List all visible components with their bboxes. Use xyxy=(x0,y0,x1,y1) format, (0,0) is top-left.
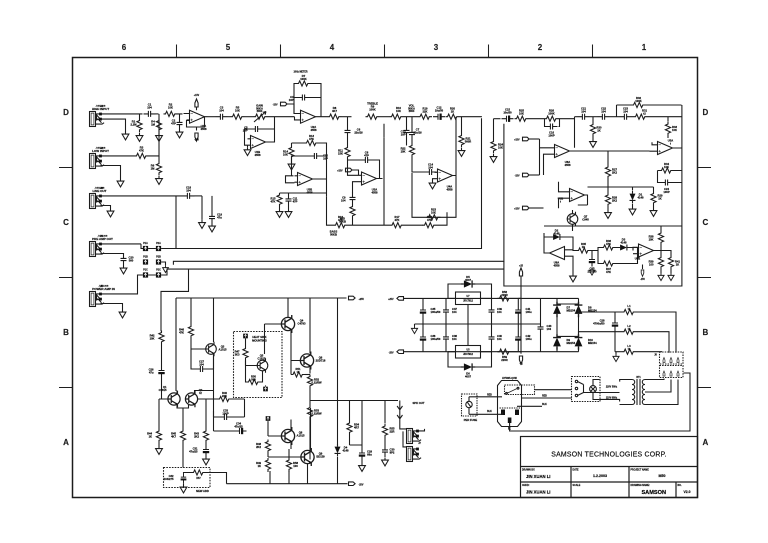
svg-text:SPK OUT: SPK OUT xyxy=(413,401,425,405)
ground jack1 xyxy=(122,132,129,140)
svg-text:0.22/5W: 0.22/5W xyxy=(311,380,321,384)
svg-text:t: t xyxy=(560,199,561,203)
svg-text:-25V: -25V xyxy=(359,485,364,487)
resistor R2 xyxy=(164,111,178,116)
resistor R8 xyxy=(328,114,342,119)
svg-text:1: 1 xyxy=(642,43,647,52)
svg-text:DRAWING NAME:: DRAWING NAME: xyxy=(631,484,651,487)
svg-text:10K: 10K xyxy=(664,165,669,169)
R14 vert gnd xyxy=(289,146,294,160)
svg-text:10K: 10K xyxy=(498,145,503,149)
cap C38 xyxy=(443,332,449,344)
fuse F1 xyxy=(466,401,472,407)
svg-text:4K7: 4K7 xyxy=(332,109,337,113)
diode D1 down xyxy=(630,191,636,203)
resistor R3 xyxy=(135,153,149,158)
svg-text:100P: 100P xyxy=(548,133,554,137)
PSU bottom rail xyxy=(404,351,522,353)
svg-text:104: 104 xyxy=(601,109,606,113)
svg-text:50KA: 50KA xyxy=(408,106,415,110)
svg-text:JRC7912: JRC7912 xyxy=(463,354,473,356)
svg-text:-15V: -15V xyxy=(194,140,199,142)
svg-text:10u/50: 10u/50 xyxy=(503,110,512,114)
U6B input wires xyxy=(544,182,567,208)
servo op-amp U1B xyxy=(248,136,269,149)
cap C27 xyxy=(196,366,208,372)
svg-text:10K: 10K xyxy=(168,105,173,109)
transformer secondary wires xyxy=(645,379,678,405)
svg-text:22R: 22R xyxy=(390,429,395,433)
svg-text:PRE AMP OUT: PRE AMP OUT xyxy=(92,237,113,241)
svg-text:J-6513-648: J-6513-648 xyxy=(95,186,105,189)
C10 feedback cap xyxy=(310,153,322,159)
capacitor C22 xyxy=(598,114,610,120)
U3B feedback wires xyxy=(286,143,327,183)
R57 in box xyxy=(192,470,206,475)
+15V flag U1A xyxy=(195,99,198,107)
fuse wires xyxy=(469,397,503,415)
svg-text:50KB: 50KB xyxy=(330,232,337,236)
-25V pennant PSU xyxy=(397,350,404,354)
zobel C30 xyxy=(382,445,388,457)
resistor R51 xyxy=(291,372,305,377)
svg-text:J-6513-648: J-6513-648 xyxy=(96,146,106,149)
regulator U7 xyxy=(456,292,481,305)
resistor R46 vert xyxy=(188,325,193,339)
svg-text:4558: 4558 xyxy=(307,190,313,194)
U5A wires xyxy=(650,105,682,151)
svg-text:100u: 100u xyxy=(526,310,532,314)
resistor R21 vert xyxy=(459,134,464,148)
transistor Q4 xyxy=(281,315,294,333)
cap C25 elec xyxy=(589,255,595,267)
capacitor C1 xyxy=(144,111,156,117)
svg-text:t: t xyxy=(637,259,638,263)
rail drops xyxy=(176,298,338,391)
ground R28 xyxy=(605,210,612,218)
svg-text:P1A: P1A xyxy=(143,242,148,245)
ground R44 xyxy=(156,446,163,454)
ground R24 xyxy=(490,154,497,162)
svg-text:5: 5 xyxy=(226,43,231,52)
wire J5 tip to pin row3 xyxy=(102,275,156,294)
svg-text:1K: 1K xyxy=(149,434,152,438)
svg-text:100: 100 xyxy=(293,464,298,468)
wire low band xyxy=(280,179,327,196)
ground R29 xyxy=(650,208,657,216)
selector contacts xyxy=(575,380,577,382)
svg-text:47K: 47K xyxy=(309,137,314,141)
resistor R49 vert xyxy=(265,458,270,472)
capacitor C7 xyxy=(404,126,410,138)
capacitor C6 xyxy=(345,126,351,138)
ground C20 xyxy=(120,266,127,274)
socket pins xyxy=(501,410,505,416)
svg-text:HY5605-QCW: HY5605-QCW xyxy=(502,378,518,380)
resistor R20 xyxy=(446,114,460,119)
svg-text:D: D xyxy=(63,108,69,117)
R15 vert xyxy=(277,193,282,207)
side section ticks xyxy=(59,168,711,388)
svg-text:4558: 4558 xyxy=(311,128,317,132)
svg-text:C1815: C1815 xyxy=(159,388,167,392)
svg-text:RED: RED xyxy=(542,395,547,397)
Q6 wires xyxy=(291,361,310,374)
svg-text:10P: 10P xyxy=(289,98,294,102)
wire U1A out xyxy=(208,116,216,118)
resistor R10 xyxy=(390,114,404,119)
resistor R4 xyxy=(156,119,161,133)
svg-text:8P2: 8P2 xyxy=(390,450,395,454)
op-amp U3B second xyxy=(295,173,316,186)
bus wire net2 xyxy=(161,124,504,266)
resistor R23 bottom xyxy=(427,215,441,220)
transistor Q7 xyxy=(567,212,578,226)
op-amp U4A xyxy=(435,169,456,182)
resistor R9 xyxy=(366,114,380,119)
wire J4 tip to pins xyxy=(102,243,142,245)
svg-text:MB154: MB154 xyxy=(588,341,597,345)
svg-text:1K: 1K xyxy=(597,128,600,132)
op-amp U5A xyxy=(655,142,676,155)
zobel C29 elec xyxy=(359,448,365,460)
jack J5 POWER AMP IN xyxy=(90,292,105,307)
capacitor C3 xyxy=(216,114,228,120)
svg-text:4148: 4148 xyxy=(554,231,560,235)
diode D5 bypass xyxy=(461,280,475,287)
svg-text:4558: 4558 xyxy=(565,163,571,167)
wire C18 to C19 xyxy=(195,195,203,197)
svg-text:-15V: -15V xyxy=(273,105,278,107)
fuse F1 dashed box xyxy=(462,394,478,416)
cap C42 elec xyxy=(515,332,521,344)
rail mid xyxy=(348,224,391,226)
resistor R22 vert xyxy=(409,144,414,158)
svg-text:JIN XUAN LI: JIN XUAN LI xyxy=(526,474,550,479)
resistor R12 vert xyxy=(350,205,355,219)
regulator U5 xyxy=(456,346,481,359)
svg-text:A1015: A1015 xyxy=(297,433,305,437)
svg-text:4148: 4148 xyxy=(638,195,644,199)
wire to opamp U4A xyxy=(412,158,425,173)
svg-text:10K: 10K xyxy=(431,210,436,214)
ground C31 xyxy=(203,457,210,465)
node D1 xyxy=(405,117,419,128)
capacitor C9 vert xyxy=(350,193,356,205)
feedback capacitor C4 xyxy=(298,95,310,101)
ground R6 xyxy=(156,176,163,184)
svg-text:J-6513-648: J-6513-648 xyxy=(99,284,109,287)
zobel R54 xyxy=(347,421,352,435)
node A1 xyxy=(156,113,159,115)
output node wire xyxy=(310,401,398,460)
op-amp U2A xyxy=(268,116,295,118)
feedback loop wires U2 xyxy=(294,84,321,120)
ground R4 xyxy=(156,133,163,141)
svg-text:10u/50: 10u/50 xyxy=(435,108,444,112)
svg-text:4R7: 4R7 xyxy=(354,425,359,429)
svg-text:47K: 47K xyxy=(139,148,144,152)
svg-text:C4793: C4793 xyxy=(298,321,306,325)
wire J3 sleeve gnd xyxy=(101,206,111,209)
wire switch low to transformer xyxy=(600,399,620,401)
svg-text:560: 560 xyxy=(129,258,134,262)
wire socket to switch xyxy=(522,390,620,398)
svg-text:104: 104 xyxy=(147,105,152,109)
svg-text:10K: 10K xyxy=(283,152,288,156)
svg-text:BT1: BT1 xyxy=(636,377,641,379)
wire J3 tip xyxy=(102,195,177,197)
ground U8A xyxy=(570,274,577,282)
svg-text:100u: 100u xyxy=(526,337,532,341)
svg-text:D: D xyxy=(703,108,709,117)
svg-text:4K7: 4K7 xyxy=(171,434,176,438)
svg-text:4148: 4148 xyxy=(621,240,627,244)
svg-text:SAMSON TECHNOLOGIES CORP.: SAMSON TECHNOLOGIES CORP. xyxy=(551,452,667,459)
svg-text:1K: 1K xyxy=(676,262,679,266)
+12V rail out xyxy=(520,298,522,351)
capacitor C21 xyxy=(578,114,590,120)
svg-text:47K: 47K xyxy=(606,242,611,246)
svg-text:100K: 100K xyxy=(300,77,306,81)
resistor R30 vert xyxy=(590,123,595,137)
svg-text:RED: RED xyxy=(487,395,492,397)
svg-text:PER FUSE: PER FUSE xyxy=(464,418,478,422)
svg-text:220R: 220R xyxy=(501,293,507,297)
resistor R59 xyxy=(498,349,512,354)
svg-text:47K: 47K xyxy=(606,270,611,274)
resistor R42 vert xyxy=(159,331,164,345)
resistor R28 vert xyxy=(605,193,610,207)
bias pin flag top xyxy=(243,334,248,339)
svg-text:1K: 1K xyxy=(451,109,454,113)
svg-text:C: C xyxy=(63,218,69,227)
AC inlet socket xyxy=(498,381,522,427)
svg-text:10K: 10K xyxy=(396,109,401,113)
supply pin +25V PSU xyxy=(519,268,522,276)
svg-text:2K2: 2K2 xyxy=(612,170,617,174)
U8B wires xyxy=(633,247,661,253)
U4A feedback to chain xyxy=(412,117,456,218)
capacitor C23 xyxy=(620,114,632,120)
svg-text:LINE OUT: LINE OUT xyxy=(93,189,107,193)
svg-text:CHKD:: CHKD: xyxy=(522,485,530,487)
svg-text:MB154: MB154 xyxy=(567,341,576,345)
svg-text:+15V: +15V xyxy=(514,209,520,211)
ground node J3 xyxy=(201,196,203,220)
amp bottom connections xyxy=(246,455,308,484)
bus wire net1 xyxy=(161,118,481,248)
top section ticks xyxy=(177,45,593,58)
resistor R56 xyxy=(498,296,512,301)
cap C16 parallel xyxy=(546,124,558,130)
cap C36 elec xyxy=(420,332,426,344)
bridge diode D8 xyxy=(575,302,583,318)
op-amp U1A xyxy=(187,110,208,123)
svg-text:100: 100 xyxy=(649,262,654,266)
resistor R44 vert xyxy=(156,429,161,443)
choke L1 xyxy=(579,304,623,312)
-15V pennant xyxy=(641,270,644,276)
title block xyxy=(521,437,698,498)
Q4 wires xyxy=(265,324,292,375)
wire pin row1 xyxy=(141,244,156,249)
diode D4 output xyxy=(335,444,341,456)
op-amp U8B xyxy=(636,244,657,257)
ground R14 xyxy=(288,162,295,170)
rail verticals xyxy=(353,138,448,226)
wire R3 to node xyxy=(149,118,160,155)
cap C35 elec xyxy=(420,305,426,317)
transformer primary wires xyxy=(620,380,633,405)
+25V pennant amp xyxy=(349,296,356,300)
resistor R45 vert xyxy=(180,429,185,443)
svg-text:1K: 1K xyxy=(658,196,661,200)
svg-text:22K: 22K xyxy=(423,109,428,113)
svg-text:100P: 100P xyxy=(663,190,669,194)
svg-text:47u/25: 47u/25 xyxy=(234,424,243,428)
feedback loop U1A xyxy=(184,114,205,128)
capacitor C2 xyxy=(177,118,183,130)
diode D3 xyxy=(618,245,630,251)
wires RC parallel xyxy=(529,119,575,127)
transistor QA xyxy=(281,427,294,445)
svg-text:BD139: BD139 xyxy=(316,454,325,458)
svg-text:P2A: P2A xyxy=(156,242,161,245)
op-amp U6A xyxy=(552,145,573,158)
svg-text:V2.0: V2.0 xyxy=(684,490,691,494)
-12V pin pennant xyxy=(519,356,522,364)
ground jack2 xyxy=(117,179,124,187)
wire bridge rails xyxy=(521,298,579,351)
svg-text:-15V: -15V xyxy=(640,279,645,281)
svg-text:4: 4 xyxy=(330,43,335,52)
transistor Q6 xyxy=(300,352,313,370)
ground C11 xyxy=(285,209,292,217)
selector lamp xyxy=(590,386,597,393)
svg-text:47P: 47P xyxy=(364,153,369,157)
border frame xyxy=(73,58,698,498)
svg-text:2: 2 xyxy=(538,43,543,52)
cap C40 xyxy=(489,332,495,344)
svg-text:104: 104 xyxy=(341,198,346,202)
svg-text:P1C: P1C xyxy=(143,270,148,272)
ground R21 xyxy=(458,148,465,156)
wire down right column xyxy=(658,148,682,226)
bias pin flag bottom xyxy=(263,387,268,392)
svg-text:2.2M: 2.2M xyxy=(131,122,138,126)
svg-text:10P: 10P xyxy=(401,132,406,136)
bus wire net3 xyxy=(161,269,504,275)
svg-text:10K: 10K xyxy=(150,336,155,340)
feedback resistor R32 top xyxy=(632,102,646,107)
svg-text:10K: 10K xyxy=(401,149,406,153)
limiter top wire xyxy=(544,226,682,237)
svg-text:2SD718: 2SD718 xyxy=(316,358,326,362)
svg-text:SAMSON: SAMSON xyxy=(641,490,666,496)
resistor R41 vert xyxy=(668,256,673,270)
ground R39 xyxy=(658,273,664,281)
bias resistor R50 xyxy=(247,379,261,384)
node D2 junction bus1 xyxy=(460,116,482,118)
resistor R52 vert xyxy=(307,375,312,389)
svg-text:100P: 100P xyxy=(222,411,228,415)
ground R15 xyxy=(276,209,283,217)
servo wires xyxy=(245,117,275,148)
svg-text:10Hz METER: 10Hz METER xyxy=(293,72,307,74)
svg-text:560: 560 xyxy=(251,377,256,381)
svg-text:+15V: +15V xyxy=(194,95,200,97)
bias resistor R47 xyxy=(243,347,248,361)
cap C34 elec xyxy=(235,428,247,434)
svg-text:B: B xyxy=(703,328,709,337)
connector pins P1 column xyxy=(143,246,148,251)
C11 vert xyxy=(286,194,292,206)
svg-text:C945: C945 xyxy=(582,217,589,221)
svg-text:4558: 4558 xyxy=(255,153,261,157)
resistor R38 vert xyxy=(658,231,663,245)
svg-text:100u/50: 100u/50 xyxy=(431,310,441,314)
U3A wires xyxy=(348,160,383,194)
svg-text:10K: 10K xyxy=(235,108,240,112)
svg-text:47u: 47u xyxy=(217,215,222,219)
choke L3 xyxy=(615,351,622,353)
resistor R43 vert xyxy=(203,429,208,443)
resistor R33 vert xyxy=(665,122,670,136)
svg-text:1K: 1K xyxy=(582,245,585,249)
QB wires xyxy=(268,408,311,464)
cap C28 elec xyxy=(612,318,618,330)
svg-text:J-6513-648: J-6513-648 xyxy=(98,234,108,237)
svg-text:HIGH INPUT: HIGH INPUT xyxy=(92,107,110,111)
svg-text:3: 3 xyxy=(434,43,439,52)
feedback C24 xyxy=(661,180,673,186)
node LINEOUT xyxy=(176,196,183,249)
C32 in box xyxy=(181,473,187,484)
feedback capacitor C8 xyxy=(361,157,373,163)
cap C39 xyxy=(489,305,495,317)
bias transistor Q5 xyxy=(257,358,268,372)
svg-text:4007: 4007 xyxy=(465,278,471,282)
cap C33 xyxy=(220,414,232,420)
op-amp U8A left-point xyxy=(547,247,568,260)
resistor R26 xyxy=(545,116,559,121)
resistor R29 vert xyxy=(651,192,656,206)
svg-text:4558: 4558 xyxy=(447,187,453,191)
cap C37 xyxy=(443,305,449,317)
svg-text:t: t xyxy=(670,141,671,145)
-15V flag b xyxy=(523,173,530,177)
capacitor C18 xyxy=(183,193,195,199)
svg-text:4558: 4558 xyxy=(554,263,560,267)
svg-text:100u/50: 100u/50 xyxy=(431,337,441,341)
svg-text:A: A xyxy=(63,438,69,447)
ground R1 xyxy=(136,133,143,141)
jack J1 HIGH INPUT xyxy=(90,112,105,127)
svg-text:100K: 100K xyxy=(635,99,641,103)
resistor R19 xyxy=(418,114,432,119)
-25V pennant amp xyxy=(349,482,356,486)
svg-text:100K: 100K xyxy=(548,111,554,115)
ground C2 xyxy=(176,130,183,138)
svg-text:560R: 560R xyxy=(465,139,471,143)
ground between pins xyxy=(163,265,169,272)
svg-text:47u/25: 47u/25 xyxy=(189,449,198,453)
feedback resistor R7 xyxy=(297,81,311,86)
svg-text:22u/16: 22u/16 xyxy=(354,130,363,134)
svg-text:+25V: +25V xyxy=(388,299,394,301)
svg-text:C: C xyxy=(703,218,709,227)
